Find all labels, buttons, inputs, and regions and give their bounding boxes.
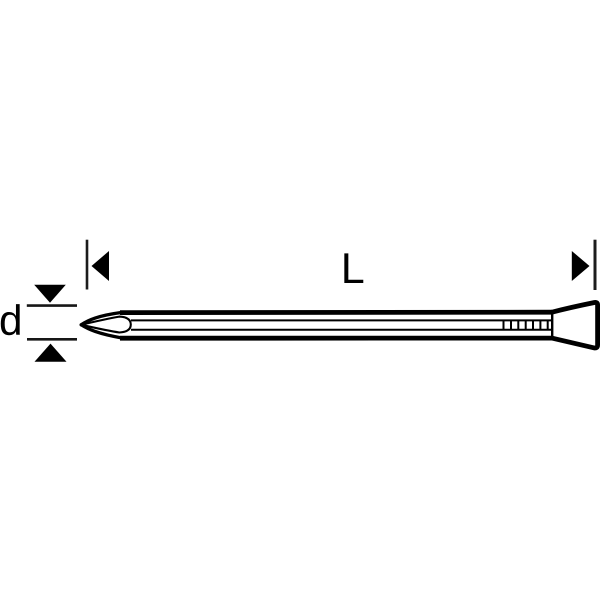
d dimension upper extension line [27, 304, 77, 307]
grip marks near head [504, 320, 548, 329]
L dimension left tick [86, 240, 89, 290]
d dimension arrow pointing up [35, 344, 67, 362]
dimension label d [1, 304, 20, 335]
nail shaft upper inner line [131, 319, 551, 321]
nail shaft lower inner line [131, 329, 551, 331]
d dimension lower extension line [27, 338, 77, 341]
nail shaft bottom edge [120, 336, 552, 341]
dimension label L [344, 253, 363, 283]
nail head [551, 302, 598, 348]
L dimension right arrow [572, 251, 590, 281]
L dimension right tick [594, 240, 597, 290]
nail tip facet [81, 317, 131, 333]
L dimension left arrow [92, 251, 110, 281]
nail tip [81, 312, 122, 338]
d dimension arrow pointing down [34, 285, 66, 303]
nail shaft top edge [120, 310, 552, 315]
